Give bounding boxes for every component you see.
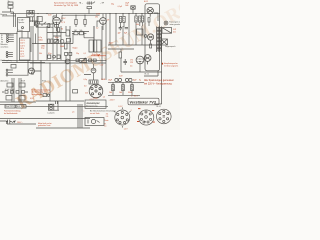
svg-text:50k: 50k: [136, 24, 139, 26]
svg-text:4,2: 4,2: [96, 27, 98, 29]
wire interstage: [60, 15, 99, 21]
wire: [34, 22, 53, 28]
grid resistor R10: [148, 18, 150, 22]
svg-text:230 V ~: 230 V ~: [17, 122, 23, 124]
big box note: [85, 100, 106, 108]
svg-text:Regler: Regler: [73, 46, 78, 49]
wire: [30, 10, 34, 26]
svg-text:anschluss: anschluss: [1, 46, 9, 48]
wire: [26, 105, 108, 107]
bus verticals: [78, 104, 82, 128]
switch unit box: [85, 118, 104, 126]
wire verticals: [38, 14, 106, 80]
svg-text:IIb: IIb: [1, 41, 3, 43]
svg-text:Verstärker 7V3: Verstärker 7V3: [129, 101, 156, 105]
wire: [36, 127, 90, 129]
relay box: [137, 29, 143, 35]
resistor R5: [119, 16, 121, 22]
box K2: [19, 83, 25, 87]
svg-text:Sperrkr.: Sperrkr.: [18, 21, 25, 24]
pickup jack box: [37, 17, 42, 22]
tube V4: [65, 59, 70, 64]
main bus wire: [2, 60, 106, 62]
cathode resistor R4: [58, 28, 60, 32]
svg-text:Taste: Taste: [104, 119, 108, 122]
wire: [97, 21, 103, 30]
cap C6: [125, 28, 128, 29]
wire: [121, 58, 162, 72]
component row y90-94: [2, 91, 28, 94]
tube V10 in enclosure: [148, 34, 154, 44]
svg-text:50µ: 50µ: [111, 3, 114, 5]
junction dots: [78, 106, 83, 119]
svg-text:4µF: 4µF: [118, 32, 121, 34]
wire verticals: [12, 55, 70, 102]
wire: [84, 49, 121, 80]
mains cap C8: [6, 120, 12, 124]
resistor R14: [64, 43, 67, 49]
resistor R19: [122, 85, 125, 91]
svg-text:W 19: W 19: [21, 80, 25, 82]
socket S1: [114, 107, 130, 127]
resistor R15: [65, 52, 68, 55]
wire: [0, 33, 18, 35]
svg-text:215: 215: [85, 92, 88, 94]
resistor R7: [135, 16, 137, 22]
wire: [30, 16, 39, 26]
resistor R13: [66, 30, 70, 36]
long wire right: [144, 33, 162, 104]
red pointer line: [91, 54, 106, 56]
left small box: [73, 90, 78, 93]
legend circle: [164, 21, 168, 25]
svg-text:EL12: EL12: [157, 106, 161, 108]
svg-text:gedrückter Taste: gedrückter Taste: [38, 124, 51, 127]
junction dots on bus: [16, 13, 142, 64]
svg-text:EL12: EL12: [144, 1, 148, 3]
cap C5: [119, 26, 122, 30]
svg-text:c: c: [84, 111, 85, 113]
resistor R11: [48, 39, 50, 43]
red square bullet: [161, 63, 163, 65]
potentiometer P1: [80, 58, 87, 63]
svg-text:0,5µ: 0,5µ: [41, 48, 44, 50]
paper background: [0, 0, 180, 130]
enclosure box: [145, 4, 160, 71]
resistor R3: [87, 7, 92, 9]
resistor R18: [112, 85, 115, 91]
svg-text:nur mit Trafo: nur mit Trafo: [90, 112, 100, 115]
wire: [56, 14, 58, 18]
box K4: [19, 96, 25, 100]
wire: [2, 34, 45, 76]
tube V9 in enclosure: [144, 55, 151, 65]
svg-text:T2: T2: [104, 126, 106, 128]
box K3: [6, 96, 12, 100]
tube V6: [29, 68, 35, 74]
svg-text:50k: 50k: [39, 53, 42, 55]
svg-text:16µF: 16µF: [133, 80, 137, 82]
svg-text:W 20: W 20: [42, 80, 46, 82]
svg-text:1,2: 1,2: [103, 96, 105, 98]
wire: [2, 12, 16, 27]
svg-text:Sich. 0,8A: Sich. 0,8A: [17, 105, 26, 108]
measurement table box: [20, 38, 31, 60]
bus: [108, 81, 144, 83]
svg-text:190: 190: [95, 16, 98, 18]
svg-text:170: 170: [130, 59, 133, 61]
svg-text:→ NF: → NF: [100, 2, 105, 4]
tube V5 phase splitter: [136, 56, 144, 64]
terminal A1: [7, 34, 14, 42]
svg-text:TA ↔: TA ↔: [79, 1, 83, 4]
grid resistor R23: [150, 44, 152, 48]
component box: [43, 94, 50, 97]
svg-text:Tb: Tb: [8, 1, 10, 3]
mains transformer TR3: [157, 27, 162, 53]
svg-text:8µ: 8µ: [139, 80, 141, 82]
wire: [36, 100, 84, 102]
svg-text:bei Vorführbetrieb: bei Vorführbetrieb: [4, 112, 17, 115]
svg-text:0,1µF 0,1µF: 0,1µF 0,1µF: [5, 89, 15, 91]
long wire: [0, 118, 90, 120]
svg-text:0,5µ: 0,5µ: [55, 37, 58, 39]
mains box 1: [5, 105, 26, 108]
resistor R17: [119, 52, 122, 58]
pin circle: [22, 27, 24, 29]
arrow: [12, 121, 15, 123]
svg-text:Aufnahme: Aufnahme: [1, 79, 9, 82]
svg-text:2: 2: [131, 110, 132, 112]
wire: [2, 8, 14, 12]
title box: [128, 98, 159, 105]
svg-text:Tonabnehmers: Tonabnehmers: [31, 93, 42, 96]
svg-text:0,1µF: 0,1µF: [118, 6, 122, 8]
coil can box L3: [27, 10, 34, 26]
wire verticals right: [110, 26, 142, 45]
wire end: [144, 104, 162, 122]
cap C7: [123, 59, 127, 65]
svg-text:2 × KC 3: 2 × KC 3: [131, 95, 138, 98]
terminal C row: [6, 69, 13, 76]
svg-text:bei 220 V~ Netzspannung: bei 220 V~ Netzspannung: [144, 82, 172, 85]
resistor R9: [141, 16, 143, 22]
wire: [110, 9, 142, 26]
wire: [102, 14, 104, 18]
wire: [53, 16, 59, 31]
bus2: [108, 94, 140, 96]
thick wire: [93, 26, 95, 52]
switch S1: [86, 1, 95, 4]
svg-text:im Gerät angeschl.: im Gerät angeschl.: [164, 65, 179, 68]
socket S2: [139, 110, 154, 125]
svg-text:Eingang: Eingang: [1, 14, 7, 16]
resistor hatch: [112, 86, 133, 90]
legend mark: [165, 22, 167, 24]
svg-text:25µ: 25µ: [76, 53, 79, 55]
tube V7: [91, 68, 96, 73]
resistor hatch: [120, 18, 144, 22]
box K1: [7, 83, 13, 87]
motor unit: [48, 101, 59, 110]
svg-text:0,5µ: 0,5µ: [84, 79, 87, 81]
svg-text:85: 85: [61, 29, 63, 31]
resistor R16: [69, 52, 72, 55]
svg-text:Netzspannung: Netzspannung: [86, 104, 97, 107]
resistor R6: [123, 16, 125, 22]
tube socket S0: [89, 84, 103, 98]
svg-text:EL 12: EL 12: [145, 73, 150, 75]
resistor R24: [66, 38, 70, 42]
wire bus: [108, 45, 157, 49]
wire: [149, 13, 158, 26]
speaker box SP2: [161, 39, 167, 45]
wire: [76, 24, 85, 27]
resistor R12: [51, 39, 53, 43]
amplifier block box B1: [18, 18, 30, 32]
svg-text:Tonbl.: Tonbl.: [18, 30, 23, 32]
svg-text:Gegensprech: Gegensprech: [165, 45, 176, 48]
svg-text:50 4A 7: 50 4A 7: [18, 19, 24, 22]
tube V8: [147, 7, 153, 16]
jack circle: [35, 22, 37, 24]
resistor R21: [75, 19, 77, 24]
speaker box SP1: [162, 28, 172, 34]
wire: [13, 71, 41, 75]
output transformer TR2: [89, 40, 101, 52]
svg-text:Verstärker Typ 7V3, Bj. 1938: Verstärker Typ 7V3, Bj. 1938: [54, 4, 78, 7]
branch wires: [113, 82, 132, 95]
svg-text:unten gesehen: unten gesehen: [169, 23, 180, 26]
svg-text:2,5: 2,5: [130, 65, 132, 67]
wire top bus: [11, 13, 161, 15]
wire: [17, 26, 33, 63]
tube V1: [53, 17, 61, 25]
tube V2: [100, 18, 107, 25]
svg-text:8µF: 8µF: [124, 32, 127, 34]
svg-text:16µF: 16µF: [108, 80, 112, 82]
wire row: [32, 34, 73, 44]
pilot lamp: [144, 35, 147, 38]
socket S3: [157, 109, 172, 124]
svg-text:a b: a b: [72, 112, 74, 114]
component row y58-64: [76, 59, 96, 62]
coupling cap C1: [36, 25, 39, 26]
bus wire 2: [30, 62, 106, 64]
svg-text:+ 250 V: + 250 V: [109, 99, 116, 101]
box caps: [89, 80, 98, 84]
input transformer L1: [8, 2, 13, 5]
svg-text:5 6: 5 6: [106, 116, 108, 118]
resistor R8: [139, 16, 141, 22]
svg-text:Laufwerk: Laufwerk: [48, 111, 55, 114]
resistor R1: [48, 24, 50, 28]
wire: [88, 9, 90, 14]
svg-text:Regelspg.: Regelspg.: [92, 54, 100, 56]
electrolytic C2: [131, 6, 135, 9]
wire: [121, 22, 143, 27]
cap row C4: [48, 55, 61, 58]
potentiometer P2: [54, 39, 59, 43]
input transformer L2: [8, 6, 13, 9]
junction: [53, 13, 107, 14]
filter box: [11, 64, 16, 68]
terminal B row: [6, 52, 13, 58]
svg-text:6,3: 6,3: [84, 85, 86, 87]
resistor R22: [84, 19, 86, 24]
resistor R20: [131, 85, 134, 91]
svg-text:0,1: 0,1: [84, 53, 86, 55]
svg-text:Netz 220V: Netz 220V: [6, 105, 15, 108]
electrolytic pair: [115, 78, 132, 81]
wire: [72, 32, 94, 38]
switch contact: [44, 22, 47, 24]
wire: [0, 105, 36, 124]
red pin mark: [137, 108, 155, 122]
bottom bus: [0, 101, 36, 103]
cap C3: [60, 39, 64, 43]
component row small: [72, 32, 86, 35]
svg-text:Sprechender Zeichengeber: Sprechender Zeichengeber: [54, 2, 77, 5]
